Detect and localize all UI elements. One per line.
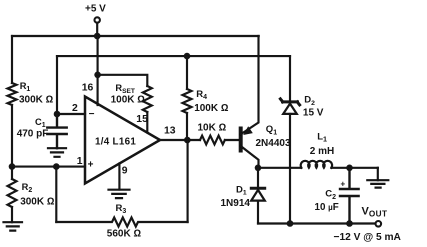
capacitor C1 [47, 114, 66, 148]
node junction Q1 collector / D1 / L1 [255, 165, 262, 172]
svg-text:300K Ω: 300K Ω [20, 197, 55, 208]
transistor Q1 base bar [239, 129, 243, 151]
node junction RSET feed [94, 72, 101, 79]
svg-text:2 mH: 2 mH [310, 146, 334, 157]
ground below R2 [4, 222, 23, 230]
wire pin9 stub [118, 164, 120, 190]
svg-text:300K Ω: 300K Ω [19, 95, 54, 106]
svg-text:13: 13 [164, 125, 176, 136]
op-amp U1 1/4 L161 triangle [85, 97, 160, 184]
resistor R1 [8, 83, 17, 105]
svg-text:9: 9 [122, 165, 128, 176]
wire second rail left drop to C1 node [56, 56, 58, 114]
svg-text:1: 1 [77, 156, 83, 167]
wire top +5V rail [12, 35, 259, 37]
wire RSET top feed [98, 75, 148, 86]
svg-text:2: 2 [72, 103, 78, 114]
svg-text:−: − [89, 109, 95, 120]
diode D2 zener [289, 56, 291, 100]
node junction C2 top [346, 165, 353, 172]
svg-text:560K Ω: 560K Ω [107, 228, 142, 239]
wire ground branch down [377, 168, 379, 180]
node junction D2 bottom [287, 220, 294, 227]
terminal +5V [95, 17, 100, 22]
transistor Q1 collector [241, 146, 259, 168]
terminal VOUT [376, 221, 382, 227]
node junction R4 top on second rail [184, 53, 191, 60]
ground below C1 [48, 148, 66, 157]
wire RSET bottom to pin15 [146, 112, 148, 133]
node junction pin1 left [9, 163, 16, 170]
wire op-amp output pin13 [160, 139, 200, 141]
svg-text:16: 16 [82, 82, 94, 93]
inductor L1 [301, 161, 333, 168]
wire R2 bottom to ground [11, 207, 13, 222]
svg-text:1/4 L161: 1/4 L161 [95, 137, 136, 148]
node junction R3 left on pin1 wire [53, 163, 60, 170]
svg-text:10 µF: 10 µF [315, 202, 339, 213]
svg-text:+5 V: +5 V [85, 4, 106, 15]
ground below pin9 [109, 190, 130, 198]
svg-text:470 pF: 470 pF [17, 128, 49, 139]
node junction +5V on rail [94, 33, 101, 40]
resistor R4 [183, 89, 192, 113]
capacitor C2 [340, 168, 359, 224]
wire R1 bottom to pin1 node [11, 105, 13, 167]
transistor Q1 emitter arrow [243, 126, 253, 135]
wire bottom output rail [258, 222, 375, 224]
wire R4 top [186, 56, 188, 89]
wire R3 left vertical [55, 167, 57, 222]
svg-text:1N914: 1N914 [221, 198, 251, 209]
wire R4 bottom [186, 113, 188, 140]
node junction C2 bottom [346, 220, 353, 227]
svg-text:100K Ω: 100K Ω [194, 103, 229, 114]
svg-text:15 V: 15 V [303, 108, 324, 119]
ground right of C2 [367, 180, 388, 187]
svg-text:10K Ω: 10K Ω [198, 123, 227, 134]
svg-text:15: 15 [136, 114, 148, 125]
wire pin1 row [12, 166, 85, 168]
transistor Q1 emitter [241, 36, 259, 134]
wire pin16 supply into op-amp [97, 36, 99, 105]
resistor R3 [56, 218, 187, 227]
wire pin2 [57, 113, 85, 115]
wire left column upper (rail to R1) [11, 36, 13, 83]
resistor 10K [200, 136, 225, 145]
node junction output / R4 / R3 [184, 137, 191, 144]
wire R3 right vertical [187, 140, 189, 222]
node junction C1 / pin2 [54, 111, 61, 118]
wire pin1 node to R2 [11, 167, 13, 179]
resistor R2 [8, 179, 17, 207]
svg-text:+: + [88, 160, 94, 171]
wire collector node to L1 [258, 167, 301, 169]
resistor RSET [143, 86, 152, 112]
svg-text:−12 V @ 5 mA: −12 V @ 5 mA [334, 232, 402, 243]
diode D1 [257, 168, 259, 187]
svg-text:2N4403: 2N4403 [256, 138, 291, 149]
wire L1 right to ground branch [331, 167, 377, 169]
svg-text:100K Ω: 100K Ω [111, 95, 146, 106]
wire 10K to Q1 base [225, 139, 239, 141]
svg-text:+: + [341, 180, 346, 189]
wire second rail [57, 55, 290, 57]
